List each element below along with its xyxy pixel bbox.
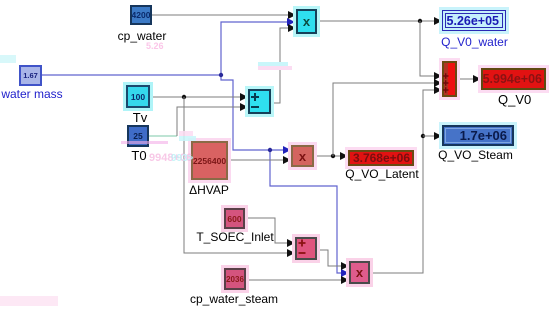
ghost artifact magenta stripe under 25 block bbox=[121, 141, 168, 144]
product Product2 (salmon x) bbox=[291, 145, 314, 167]
ghost artifact pink band left of dHVAP bbox=[179, 131, 193, 136]
wire Tv to Sum1 plus bbox=[150, 93, 248, 101]
label dHVAP bbox=[189, 184, 229, 197]
sum Sum2 (pink) bbox=[295, 237, 317, 260]
label Q_V0 bbox=[498, 93, 531, 107]
junction node on water-mass wire bbox=[219, 73, 223, 77]
product Product3 (pink x) bbox=[349, 261, 370, 284]
wire Sum1 out to Product1 in3 bbox=[271, 24, 296, 103]
display Q_VO_Steam 1.7e+06 bbox=[442, 125, 514, 146]
constant T0 25 bbox=[127, 125, 149, 147]
wire T_SOEC_Inlet to Sum2 plus bbox=[245, 218, 295, 247]
label T0 bbox=[130, 149, 148, 163]
ghost artifact pink stripe near sum1 below2 bbox=[258, 66, 292, 70]
constant cp_water 4200 bbox=[130, 5, 152, 25]
wire dHVAP to Product2 in2 bbox=[228, 156, 291, 164]
wire water-mass blue net bbox=[42, 22, 341, 273]
label cp_water bbox=[116, 30, 168, 43]
junction node blue net lower bbox=[268, 148, 272, 152]
sum Sum1 (cyan) bbox=[248, 89, 271, 114]
ghost artifact cyan stripe near sum1 below bbox=[258, 62, 288, 66]
constant dHVAP 2256400 bbox=[191, 141, 228, 180]
arrow into Product1 in2 (blue) bbox=[287, 18, 295, 26]
junction node Product1 out bbox=[418, 19, 422, 23]
product Product1 (cyan x) bbox=[296, 9, 317, 34]
junction node Tv bbox=[182, 95, 186, 99]
wire T0 to Sum1 minus bbox=[149, 103, 248, 136]
ghost artifact cyan band left of dHVAP bbox=[179, 136, 196, 141]
label cp_water_steam bbox=[190, 293, 278, 306]
wire Product3 out up to Add in3 bbox=[370, 86, 442, 273]
wire Tv junction down to Sum2 minus bbox=[184, 97, 295, 257]
sum Add (red vertical) bbox=[442, 61, 457, 97]
wire Product1 out to Display Q_V0_water bbox=[317, 17, 442, 25]
wire cp_water to Product1 in1 bbox=[152, 11, 296, 19]
constant Tv 100 bbox=[126, 85, 150, 108]
display Q_V0_water 5.26e+05 bbox=[442, 10, 506, 31]
ghost artifact cyan blob left of water mass bbox=[0, 55, 16, 63]
label water mass bbox=[1, 88, 63, 101]
wire Sum2 out to Product3 in1 bbox=[317, 250, 349, 270]
junction node Product2 out bbox=[331, 154, 335, 158]
wire cp_water_steam to Product3 in3 bbox=[246, 276, 349, 284]
ghost artifact cyan text right of T0 bbox=[171, 153, 231, 164]
wire Add out to Display Q_V0 bbox=[457, 75, 481, 83]
ghost artifact pink text near T0 bbox=[149, 152, 249, 164]
wire Product2 junction up to Add in2 bbox=[333, 79, 442, 156]
constant cp_water_steam 2036 bbox=[224, 268, 246, 290]
constant water mass 1.67 bbox=[19, 65, 42, 86]
label T_SOEC_Inlet bbox=[196, 231, 274, 244]
label Q_VO_Steam bbox=[438, 149, 513, 162]
label Q_VO_Latent bbox=[345, 168, 419, 181]
wire junction to Display Q_VO_Steam bbox=[423, 132, 442, 140]
constant T_SOEC_Inlet 600 bbox=[224, 208, 245, 229]
arrow into Product3 in2 (blue) bbox=[341, 269, 349, 277]
display Q_VO_Latent 3.768e+06 bbox=[348, 150, 414, 166]
wire Product1 junction down to Add in1 bbox=[420, 21, 442, 80]
label Q_V0_water bbox=[441, 36, 508, 49]
wire Product2 out to Display Q_VO_Latent bbox=[314, 152, 348, 160]
junction node Product3 riser bbox=[421, 134, 425, 138]
display Q_V0 5.994e+06 bbox=[481, 68, 546, 90]
ghost artifact pink blob bottom left bbox=[0, 296, 58, 306]
label Tv bbox=[131, 111, 149, 125]
ghost artifact pink text under cp_water bbox=[146, 41, 206, 51]
arrow into Product2 in1 (blue) bbox=[283, 146, 291, 154]
